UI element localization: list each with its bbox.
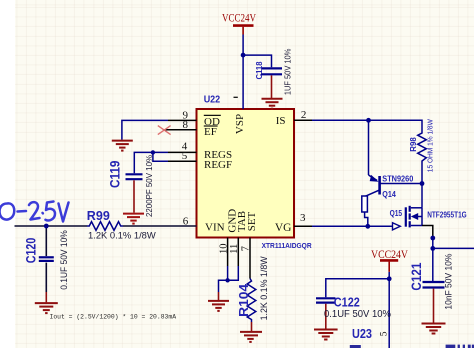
svg-text:STN9260: STN9260: [382, 174, 413, 183]
svg-text:R99: R99: [87, 209, 110, 223]
svg-text:VIN: VIN: [205, 221, 225, 233]
svg-text:C121: C121: [409, 262, 424, 290]
svg-text:C119: C119: [108, 161, 123, 189]
svg-text:1.2K 0.1% 1/8W: 1.2K 0.1% 1/8W: [259, 256, 269, 320]
svg-text:XTR111AIDGQR: XTR111AIDGQR: [262, 241, 313, 250]
svg-text:C118: C118: [255, 61, 264, 80]
svg-text:5: 5: [379, 331, 389, 336]
svg-text:C122: C122: [334, 295, 360, 309]
svg-text:Q14: Q14: [382, 190, 396, 199]
svg-text:R104: R104: [236, 283, 251, 317]
svg-text:1.2K 0.1% 1/8W: 1.2K 0.1% 1/8W: [88, 230, 156, 241]
svg-text:IS: IS: [276, 115, 286, 127]
svg-text:8: 8: [183, 119, 189, 131]
svg-text:Iout = (2.5V/1200) * 10 = 20.8: Iout = (2.5V/1200) * 10 = 20.83mA: [50, 314, 177, 321]
svg-text:5: 5: [182, 150, 188, 162]
svg-text:EF: EF: [204, 126, 217, 138]
svg-text:REGF: REGF: [204, 159, 232, 171]
svg-text:15 OHM 1% 1/8W: 15 OHM 1% 1/8W: [425, 119, 434, 172]
svg-text:0.1UF 50V 10%: 0.1UF 50V 10%: [324, 309, 391, 320]
svg-text:7: 7: [241, 246, 252, 251]
svg-text:6: 6: [183, 216, 189, 228]
svg-text:1UF 50V 10%: 1UF 50V 10%: [283, 49, 292, 96]
svg-text:2: 2: [301, 109, 307, 121]
svg-text:VG: VG: [275, 222, 292, 234]
svg-text:11: 11: [229, 244, 240, 254]
svg-text:R98: R98: [408, 137, 418, 152]
svg-text:10nF 50V 10%: 10nF 50V 10%: [444, 253, 454, 309]
svg-text:VCC24V: VCC24V: [371, 247, 408, 261]
svg-text:U22: U22: [204, 94, 221, 105]
svg-text:VCC24V: VCC24V: [222, 11, 256, 25]
svg-text:SET: SET: [246, 211, 258, 231]
svg-text:Q15: Q15: [390, 209, 403, 218]
svg-text:2200PF 50V 10%: 2200PF 50V 10%: [144, 154, 154, 217]
svg-text:0.1UF 50V 10%: 0.1UF 50V 10%: [59, 230, 69, 290]
svg-text:U23: U23: [352, 326, 372, 341]
svg-text:NTF2955T1G: NTF2955T1G: [427, 210, 467, 219]
svg-text:10: 10: [218, 244, 229, 255]
svg-text:VSP: VSP: [234, 114, 246, 134]
svg-text:3: 3: [300, 212, 306, 224]
svg-text:C120: C120: [23, 238, 38, 264]
